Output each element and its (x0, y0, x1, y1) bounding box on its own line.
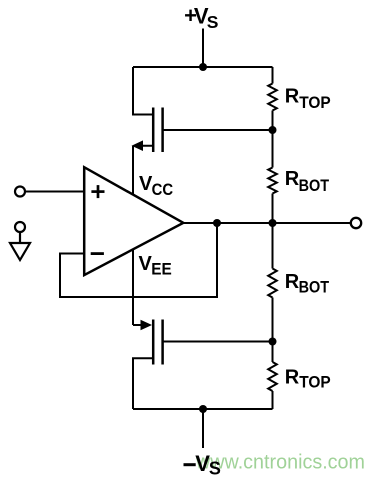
label R_TOP upper (285, 85, 331, 111)
svg-text:S: S (209, 459, 221, 479)
wire VCC pin (132, 146, 134, 195)
svg-text:TOP: TOP (299, 93, 331, 112)
wire input (26, 191, 85, 193)
svg-text:CC: CC (152, 180, 174, 199)
ground (10, 222, 30, 260)
wire feedback (60, 223, 217, 297)
wire top rail (133, 66, 273, 68)
svg-text:R: R (285, 85, 300, 107)
wire Q1 drain (133, 67, 153, 115)
label R_BOT upper (285, 168, 330, 195)
svg-text:R: R (285, 271, 300, 293)
label R_BOT lower (285, 271, 330, 296)
transistor Q2 (133, 320, 163, 365)
op-amp U1 (84, 167, 183, 275)
resistor R_BOT lower (268, 223, 277, 342)
wire Q2 gate (163, 341, 273, 343)
input terminal (15, 187, 25, 197)
label VCC (139, 173, 173, 199)
junction node -Vs (199, 405, 207, 413)
label VEE (139, 253, 172, 278)
op-amp minus input (91, 252, 104, 255)
resistor R_BOT upper (268, 130, 277, 223)
output terminal (351, 218, 361, 228)
label R_TOP lower (285, 366, 331, 391)
wire +Vs lead (202, 29, 204, 68)
wire output (183, 222, 350, 224)
transistor Q1 (132, 108, 163, 153)
junction node +Vs (199, 63, 207, 71)
junction node Q2 gate divider (269, 338, 277, 346)
svg-text:BOT: BOT (299, 176, 330, 195)
wire bottom rail (133, 408, 273, 410)
resistor R_TOP upper (268, 67, 277, 130)
svg-text:R: R (285, 366, 300, 388)
op-amp plus input (91, 185, 104, 198)
wire Q2 drain (133, 358, 153, 409)
label -Vs (184, 451, 221, 479)
svg-text:TOP: TOP (299, 373, 331, 392)
resistor R_TOP lower (268, 342, 277, 410)
label +Vs (184, 3, 218, 32)
svg-text:R: R (285, 168, 300, 190)
svg-text:EE: EE (151, 259, 172, 278)
wire -Vs lead (202, 409, 204, 448)
junction node feedback (213, 219, 221, 227)
wire Q1 gate (163, 129, 273, 131)
junction node divider output (269, 219, 277, 227)
junction node Q1 gate divider (269, 126, 277, 134)
wire VEE pin and Q2 source (132, 249, 134, 325)
svg-text:S: S (207, 12, 219, 32)
svg-text:BOT: BOT (299, 277, 330, 296)
